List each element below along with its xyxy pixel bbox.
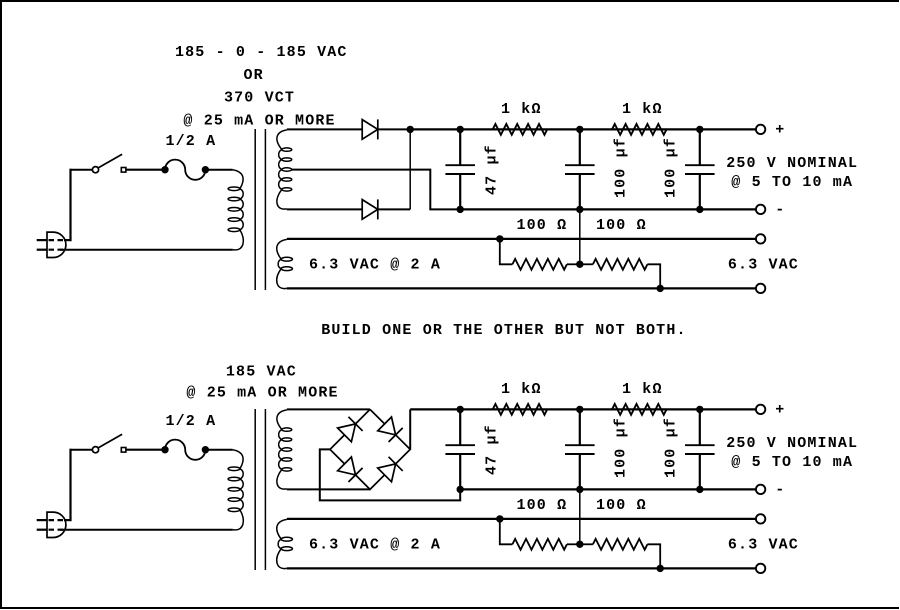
label 370 VCT xyxy=(224,90,295,107)
label 47 uf 1 xyxy=(484,144,501,195)
resistor R4 1 100 Ohm xyxy=(593,259,648,270)
svg-text:OR: OR xyxy=(244,67,264,84)
wire switch to fuse 2 xyxy=(126,449,164,451)
capacitor C2 2 100 uf xyxy=(565,409,595,489)
label 1/2 A 1 xyxy=(166,133,217,150)
label R2 1 kOhm 1 xyxy=(622,101,663,118)
terminal 6.3 top 2 xyxy=(756,514,765,523)
fuse F2 1/2 A xyxy=(161,440,209,460)
label + 1 xyxy=(775,122,785,139)
node hum center 2 xyxy=(576,541,583,548)
wire center tap xyxy=(292,170,461,210)
bridge diode D4 xyxy=(378,417,403,442)
wire switch to fuse 1 xyxy=(126,169,164,171)
label C2 100 uf 2 xyxy=(613,417,630,478)
svg-text:100 Ω: 100 Ω xyxy=(517,497,568,514)
label 250 V NOMINAL 1 xyxy=(726,155,858,172)
wire + rail 1 xyxy=(410,128,756,130)
wire hum left lead 1 xyxy=(500,239,513,264)
label 250 V NOMINAL 2 xyxy=(726,435,858,452)
label + 2 xyxy=(775,402,785,419)
label @ 25 mA OR MORE top xyxy=(183,112,335,129)
svg-text:100 Ω: 100 Ω xyxy=(517,217,568,234)
label C3 100 uf 1 xyxy=(663,137,680,198)
svg-text:100 µf: 100 µf xyxy=(663,137,680,198)
bridge diode D3 xyxy=(338,417,363,442)
node C1 bottom 2 xyxy=(457,486,464,493)
switch S1 xyxy=(92,154,126,172)
svg-text:-: - xyxy=(775,202,785,219)
label C3 100 uf 2 xyxy=(663,417,680,478)
wire hum tap 2 xyxy=(579,489,581,544)
label R4 100 Ohm 2 xyxy=(596,497,647,514)
wire D1 to junction xyxy=(378,128,410,130)
label 185 VAC xyxy=(226,363,297,380)
label 47 uf 2 xyxy=(484,424,501,475)
wire 6.3 rail top 1 xyxy=(287,238,756,240)
wire secondary top to bridge xyxy=(287,408,370,410)
node diode junction xyxy=(407,126,414,133)
svg-text:@ 5 TO 10 mA: @ 5 TO 10 mA xyxy=(731,174,853,191)
svg-text:250 V NOMINAL: 250 V NOMINAL xyxy=(726,435,858,452)
terminal - 2 xyxy=(756,485,765,494)
wire - rail 1 xyxy=(460,208,756,210)
transformer T1 primary winding xyxy=(228,170,243,250)
node hum left 2 xyxy=(496,515,503,522)
node C3 bottom 2 xyxy=(696,486,703,493)
fuse F1 1/2 A xyxy=(161,160,209,180)
node C2 bottom 2 xyxy=(576,486,583,493)
svg-text:6.3 VAC: 6.3 VAC xyxy=(728,257,799,274)
node hum left 1 xyxy=(496,235,503,242)
wire hum right lead 2 xyxy=(647,544,660,568)
svg-text:185 - 0 - 185 VAC: 185 - 0 - 185 VAC xyxy=(175,44,348,61)
wire plug to switch riser 2 xyxy=(64,449,93,521)
label 6.3 VAC @ 2 A 1 xyxy=(309,257,441,274)
wire 6.3 rail bottom 1 xyxy=(287,287,756,289)
terminal 6.3 bottom 1 xyxy=(756,284,765,293)
node C1 top 2 xyxy=(457,406,464,413)
bridge rectifier diamond xyxy=(330,409,410,489)
svg-text:+: + xyxy=(775,402,785,419)
svg-text:6.3 VAC @ 2 A: 6.3 VAC @ 2 A xyxy=(309,537,441,554)
label R2 1 kOhm 2 xyxy=(622,381,663,398)
svg-text:100 µf: 100 µf xyxy=(663,417,680,478)
wire hum tap 1 xyxy=(579,209,581,264)
wire bridge - feed xyxy=(320,449,460,500)
label R3 100 Ohm 1 xyxy=(517,217,568,234)
node hum center 1 xyxy=(576,261,583,268)
resistor R1 2 1 kOhm xyxy=(493,404,548,415)
wire bridge + riser xyxy=(409,409,411,449)
svg-text:@ 5 TO 10 mA: @ 5 TO 10 mA xyxy=(731,454,853,471)
resistor R1 1 1 kOhm xyxy=(493,124,548,135)
wire D2 to junction xyxy=(378,208,410,210)
label 6.3 VAC 1 xyxy=(728,257,799,274)
diode D2 xyxy=(362,199,378,219)
wire plug to primary bottom 2 xyxy=(60,529,233,531)
svg-text:370 VCT: 370 VCT xyxy=(224,90,295,107)
wire fuse to primary 2 xyxy=(205,449,232,451)
switch S2 xyxy=(92,434,126,453)
label @ 5 TO 10 mA 2 xyxy=(731,454,853,471)
transformer T2 core xyxy=(255,409,265,570)
diode D1 xyxy=(362,119,378,139)
node C3 top 2 xyxy=(696,406,703,413)
capacitor C1 2 47 uf xyxy=(445,409,475,489)
wire - rail 2 xyxy=(460,488,756,490)
capacitor C1 1 47 uf xyxy=(445,129,475,209)
svg-text:185 VAC: 185 VAC xyxy=(226,363,297,380)
resistor R3 2 100 Ohm xyxy=(512,539,567,550)
node C2 bottom 1 xyxy=(576,206,583,213)
resistor R2 1 1 kOhm xyxy=(612,124,667,135)
node hum right 2 xyxy=(657,565,664,572)
svg-text:100 Ω: 100 Ω xyxy=(596,217,647,234)
label - 2 xyxy=(775,482,785,499)
svg-text:1/2 A: 1/2 A xyxy=(166,413,217,430)
node C3 top 1 xyxy=(696,126,703,133)
AC plug P1 xyxy=(37,232,66,257)
wire secondary bottom to bridge xyxy=(287,488,370,490)
label R4 100 Ohm 1 xyxy=(596,217,647,234)
svg-text:47 µf: 47 µf xyxy=(484,144,501,195)
label 6.3 VAC @ 2 A 2 xyxy=(309,537,441,554)
wire hum left lead 2 xyxy=(500,519,513,544)
wire plug to primary bottom 1 xyxy=(60,249,233,251)
label R3 100 Ohm 2 xyxy=(517,497,568,514)
svg-text:1 kΩ: 1 kΩ xyxy=(622,101,663,118)
wire secondary bottom to D2 xyxy=(287,208,362,210)
node C2 top 2 xyxy=(576,406,583,413)
node C1 top 1 xyxy=(457,126,464,133)
wire plug to switch riser 1 xyxy=(64,169,93,241)
resistor R3 1 100 Ohm xyxy=(512,259,567,270)
node C1 bottom 1 xyxy=(457,206,464,213)
bridge diode D6 xyxy=(378,457,403,482)
wire fuse to primary 1 xyxy=(205,169,232,171)
node hum right 1 xyxy=(657,285,664,292)
wire + rail 2 xyxy=(410,408,756,410)
terminal + 2 xyxy=(756,405,765,414)
label BUILD ONE OR THE OTHER BUT NOT BOTH. xyxy=(321,322,686,339)
label 1/2 A 2 xyxy=(166,413,217,430)
wire hum center left 2 xyxy=(567,543,580,545)
svg-text:BUILD ONE OR THE OTHER BUT NOT: BUILD ONE OR THE OTHER BUT NOT BOTH. xyxy=(321,322,686,339)
node C2 top 1 xyxy=(576,126,583,133)
label 6.3 VAC 2 xyxy=(728,537,799,554)
wire hum center right 2 xyxy=(580,543,593,545)
label C2 100 uf 1 xyxy=(613,137,630,198)
label R1 1 kOhm 1 xyxy=(501,101,542,118)
node C3 bottom 1 xyxy=(696,206,703,213)
svg-text:6.3 VAC: 6.3 VAC xyxy=(728,537,799,554)
svg-text:@ 25 mA OR MORE: @ 25 mA OR MORE xyxy=(183,112,335,129)
svg-text:250 V NOMINAL: 250 V NOMINAL xyxy=(726,155,858,172)
svg-text:47 µf: 47 µf xyxy=(484,424,501,475)
wire hum right lead 1 xyxy=(647,264,660,288)
svg-text:6.3 VAC @ 2 A: 6.3 VAC @ 2 A xyxy=(309,257,441,274)
transformer T2 HV secondary winding xyxy=(277,410,292,489)
label 185-0-185 VAC xyxy=(175,44,348,61)
svg-text:1 kΩ: 1 kΩ xyxy=(501,101,542,118)
label - 1 xyxy=(775,202,785,219)
terminal + 1 xyxy=(756,125,765,134)
capacitor C2 1 100 uf xyxy=(565,129,595,209)
svg-text:100 µf: 100 µf xyxy=(613,417,630,478)
transformer T1 6.3V winding xyxy=(277,239,293,288)
capacitor C3 1 100 uf xyxy=(685,129,715,209)
svg-text:@ 25 mA OR MORE: @ 25 mA OR MORE xyxy=(186,385,338,402)
terminal 6.3 top 1 xyxy=(756,234,765,243)
resistor R4 2 100 Ohm xyxy=(593,539,648,550)
svg-text:+: + xyxy=(775,122,785,139)
terminal 6.3 bottom 2 xyxy=(756,564,765,573)
label R1 1 kOhm 2 xyxy=(501,381,542,398)
svg-text:100 Ω: 100 Ω xyxy=(596,497,647,514)
wire 6.3 rail bottom 2 xyxy=(287,567,756,569)
svg-text:1/2 A: 1/2 A xyxy=(166,133,217,150)
bridge diode D5 xyxy=(338,457,363,482)
transformer T2 6.3V winding xyxy=(277,519,293,568)
label OR xyxy=(244,67,264,84)
transformer T1 HV secondary winding xyxy=(277,130,292,209)
transformer T1 core xyxy=(255,129,265,290)
wire hum center left 1 xyxy=(567,263,580,265)
wire secondary top to D1 xyxy=(287,128,362,130)
svg-text:-: - xyxy=(775,482,785,499)
capacitor C3 2 100 uf xyxy=(685,409,715,489)
transformer T2 primary winding xyxy=(228,450,243,530)
svg-text:1 kΩ: 1 kΩ xyxy=(501,381,542,398)
resistor R2 2 1 kOhm xyxy=(612,404,667,415)
terminal - 1 xyxy=(756,205,765,214)
AC plug P2 xyxy=(37,512,66,537)
label @ 25 mA OR MORE bottom xyxy=(186,385,338,402)
wire hum center right 1 xyxy=(580,263,593,265)
svg-text:1 kΩ: 1 kΩ xyxy=(622,381,663,398)
label @ 5 TO 10 mA 1 xyxy=(731,174,853,191)
wire diode junction vertical xyxy=(409,129,411,209)
wire 6.3 rail top 2 xyxy=(287,518,756,520)
svg-text:100 µf: 100 µf xyxy=(613,137,630,198)
